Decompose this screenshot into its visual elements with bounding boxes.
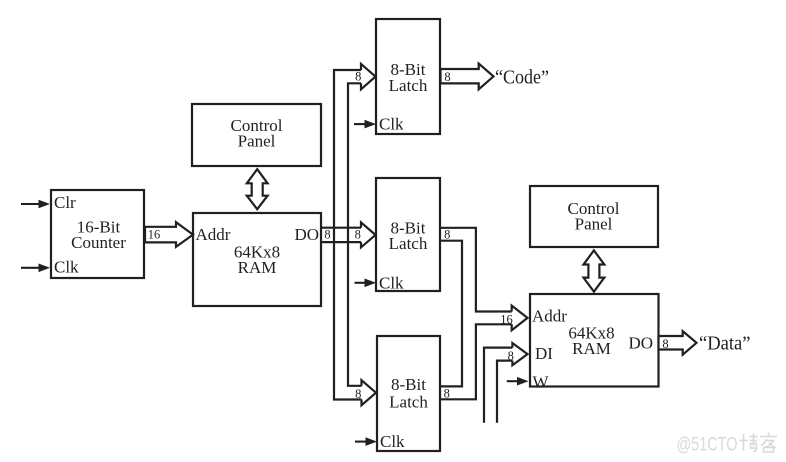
svg-text:8: 8 (662, 337, 668, 351)
svg-text:8: 8 (324, 228, 330, 242)
16-bit counter U1 box (51, 190, 144, 278)
input arrow: Clk into latch1 (354, 123, 365, 125)
svg-text:Panel: Panel (238, 132, 276, 151)
input arrow: W into right RAM (507, 380, 518, 382)
svg-text:Panel: Panel (575, 215, 613, 234)
svg-text:RAM: RAM (572, 339, 611, 358)
svg-text:Clk: Clk (54, 257, 79, 276)
svg-text:16: 16 (500, 312, 513, 326)
bus arrow: counter to RAM Addr (16-bit) (145, 222, 193, 247)
svg-text:Latch: Latch (389, 393, 428, 412)
bus arrow: latch1 output to Code (8-bit) (441, 64, 494, 90)
svg-text:DO: DO (294, 225, 319, 244)
bus arrowhead into right RAM Addr (16-bit) (512, 306, 528, 331)
bus arrowhead into latch1 (8-bit) (361, 64, 376, 89)
wire: vertical bus left line (x=334) with branch to latch1 and latch3 (334, 70, 362, 400)
svg-text:“Data”: “Data” (699, 332, 751, 354)
wire: DO bus upper edge from left RAM to latch2 arrow (322, 227, 361, 229)
8-bit latch 3 box (bottom) (377, 336, 440, 451)
svg-text:“Code”: “Code” (495, 66, 549, 88)
svg-text:8: 8 (508, 349, 514, 363)
wire: latch2 output upper edge to right RAM Addr arrow upper edge (441, 228, 512, 312)
svg-text:Clk: Clk (379, 115, 404, 134)
watermark glyph ke (CJK) (760, 433, 777, 453)
svg-text:Clk: Clk (380, 432, 405, 451)
bidirectional hollow arrow: left control panel to RAM (247, 169, 268, 209)
wire: vertical bus right line (x=348) with branch to latch1 and latch3 (348, 83, 362, 386)
svg-text:Clk: Clk (379, 273, 404, 292)
svg-text:Latch: Latch (389, 234, 428, 253)
64Kx8 RAM right box (530, 294, 659, 387)
svg-text:Addr: Addr (532, 307, 567, 326)
control panel right box (530, 186, 658, 247)
svg-text:Clr: Clr (54, 193, 76, 212)
wire: DO bus lower edge from left RAM to latch2 arrow (322, 241, 361, 243)
svg-text:8: 8 (355, 387, 361, 401)
control panel left box (192, 104, 321, 166)
svg-text:8: 8 (444, 228, 450, 242)
bus arrow: right RAM DO to Data (8-bit) (659, 331, 697, 355)
svg-text:Counter: Counter (71, 233, 126, 252)
input arrow: Clk into latch2 (355, 282, 366, 284)
input arrow: Clk into latch3 (355, 441, 366, 443)
svg-text:8-Bit: 8-Bit (391, 375, 426, 394)
svg-text:8: 8 (444, 70, 450, 84)
watermark glyph bo (CJK) (740, 434, 758, 452)
svg-text:@51CTO: @51CTO (677, 435, 738, 456)
wire: right RAM Addr arrow lower edge to latch3 output lower edge (441, 324, 512, 399)
input arrow: Clk into counter (21, 267, 39, 269)
svg-text:Addr: Addr (196, 225, 231, 244)
bus arrowhead into latch3 (8-bit) (362, 380, 377, 405)
wire: DI bus upper edge rising from open end to right RAM (484, 348, 512, 423)
svg-text:DO: DO (628, 333, 653, 352)
bus arrowhead into right RAM DI (8-bit) (512, 343, 527, 365)
bidirectional hollow arrow: right control panel to RAM (584, 250, 605, 291)
svg-text:DI: DI (535, 344, 553, 363)
svg-text:16: 16 (148, 228, 161, 242)
8-bit latch 1 box (top) (376, 19, 440, 134)
svg-text:8: 8 (444, 387, 450, 401)
svg-text:W: W (533, 372, 550, 391)
svg-text:RAM: RAM (238, 258, 277, 277)
wire: DI bus lower edge rising from open end to right RAM (497, 361, 512, 423)
svg-text:8: 8 (355, 70, 361, 84)
svg-text:8: 8 (355, 228, 361, 242)
input arrow: Clr into counter (21, 203, 39, 205)
8-bit latch 2 box (middle) (376, 178, 440, 291)
wire: latch2 output lower edge down to latch3 output upper edge (441, 241, 462, 387)
64Kx8 RAM left box (193, 213, 321, 306)
bus arrowhead into latch2 (8-bit) (361, 222, 376, 247)
svg-text:Latch: Latch (389, 76, 428, 95)
